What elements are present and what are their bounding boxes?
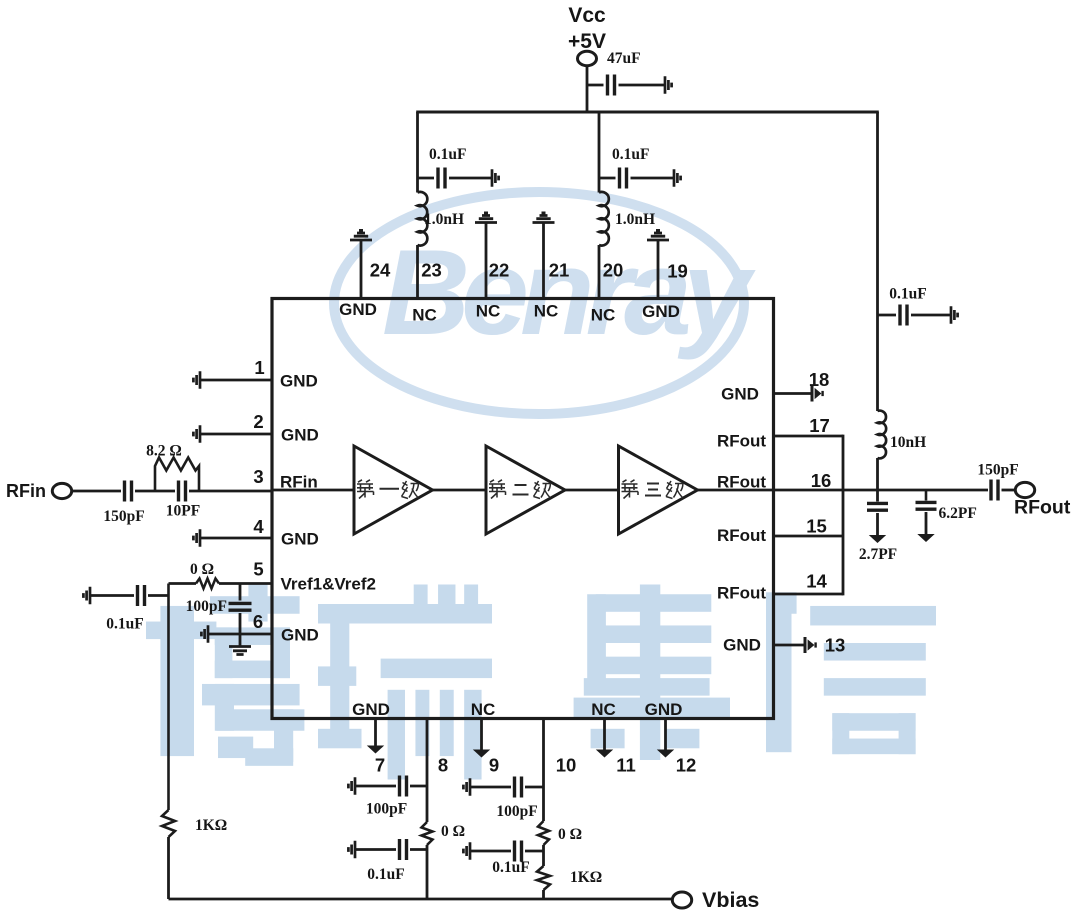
svg-text:GND: GND [352,700,390,719]
wire [239,584,242,601]
amplifier 2 label (stage 2 Chinese) [489,480,551,499]
svg-text:100pF: 100pF [366,801,407,818]
Vbias bus wire [169,898,673,901]
pin 19 wire [657,240,660,299]
wire [169,582,197,585]
ground for pin 12 [657,750,674,758]
pin 9 wire [480,719,483,750]
svg-text:20: 20 [603,260,624,281]
svg-text:24: 24 [370,260,391,281]
signal wire 2-3 [565,489,619,492]
ground arrow pin 18 [812,386,823,402]
pin 15 wire [774,535,844,538]
svg-text:1.0nH: 1.0nH [615,211,655,228]
pin 7 wire [374,719,377,746]
capacitor 150pF (input) [125,481,132,502]
capacitor 10PF [179,481,186,502]
svg-text:17: 17 [809,415,830,436]
capacitor 0.1uF (pin8) [400,839,407,860]
ground for pin 2 [193,425,200,442]
svg-text:NC: NC [412,306,437,325]
power bus wire [416,111,879,114]
svg-text:12: 12 [676,755,697,776]
wire [598,245,601,299]
RFout bus wire [842,435,845,596]
wire [72,490,121,493]
wire [355,848,396,851]
wire [449,177,491,180]
svg-text:0.1uF: 0.1uF [429,146,466,163]
svg-text:18: 18 [809,369,830,390]
svg-text:22: 22 [489,260,510,281]
svg-text:47uF: 47uF [607,50,641,67]
svg-text:0 Ω: 0 Ω [558,826,582,843]
svg-text:RFout: RFout [717,432,766,451]
signal wire in [272,489,354,492]
svg-text:6: 6 [253,611,263,632]
wire [426,845,429,899]
svg-text:Vcc: Vcc [568,4,606,27]
ground for 47uF [665,76,672,93]
capacitor 150pF (output) [991,480,998,501]
svg-text:NC: NC [591,700,616,719]
svg-text:GND: GND [645,700,683,719]
svg-text:GND: GND [281,530,319,549]
svg-text:23: 23 [421,260,442,281]
RFout terminal [1015,482,1034,497]
svg-text:2: 2 [253,411,263,432]
svg-text:1.0nH: 1.0nH [424,211,464,228]
wire [876,458,879,490]
svg-text:19: 19 [667,261,688,282]
pin 11 wire [603,719,606,750]
wire [90,594,134,597]
wire [619,84,665,87]
pin 22 wire [485,223,488,300]
inductor L 1.0nH (pin20) [599,192,609,246]
wire [876,513,879,535]
wire [598,112,601,193]
resistor 1K ohm (pin10) [537,866,550,890]
capacitor 0.1uF (right) [900,305,907,326]
capacitor C 0.1uF (pin23) [438,168,445,189]
svg-text:+5V: +5V [568,30,606,53]
wire [470,786,511,789]
pin 6 wire [208,633,272,636]
wire [586,66,589,114]
ground below 100pF [229,647,251,655]
svg-text:GND: GND [281,626,319,645]
svg-text:10: 10 [556,755,577,776]
svg-text:0.1uF: 0.1uF [492,859,529,876]
wire [925,512,928,534]
RFin terminal [52,483,71,498]
wire [525,786,544,789]
svg-text:11: 11 [616,755,636,776]
capacitor 6.2PF [916,502,937,509]
pin 24 wire [360,240,363,299]
pin 10 wire [542,719,545,822]
svg-text:1KΩ: 1KΩ [570,869,602,886]
wire [416,245,419,299]
pin 2 wire [200,433,272,436]
decorative watermark layer [146,192,936,780]
svg-text:RFin: RFin [6,481,46,501]
wire [418,177,435,180]
amplifier 3 label (stage 3 Chinese) [622,480,684,499]
capacitor 0.1uF (pin10) [515,841,522,862]
capacitor 100pF (pin10) [515,777,522,798]
ground for 100pF (pin8) [348,777,355,794]
amplifier stage 2 [486,446,565,534]
ground for pin 4 [193,529,200,546]
node A vertical wire [167,584,170,811]
amplifier stage 1 [354,446,433,534]
svg-text:GND: GND [280,372,318,391]
ground for 0.1uF (right) [951,306,958,323]
ground for pin20 cap [674,169,681,186]
svg-text:1KΩ: 1KΩ [195,817,227,834]
svg-text:GND: GND [339,300,377,319]
svg-text:RFout: RFout [717,526,766,545]
svg-text:GND: GND [721,385,759,404]
svg-text:0.1uF: 0.1uF [889,286,926,303]
wire [470,850,511,853]
wire [416,112,419,193]
resistor 8.2 ohm [155,458,199,492]
ground for 6.2PF [917,534,934,542]
svg-text:2.7PF: 2.7PF [859,546,897,563]
svg-text:10PF: 10PF [166,503,200,520]
capacitor 2.7PF [867,503,888,510]
pin 12 wire [664,719,667,750]
resistor 1K ohm (left) [162,810,175,837]
pin 18 wire [774,392,813,395]
svg-text:100pF: 100pF [186,598,227,615]
wire [525,850,544,853]
amplifier 1 label (stage 1 Chinese) [357,480,419,499]
ground for pin 7 [367,746,384,754]
wire [410,785,427,788]
svg-text:9: 9 [489,755,499,776]
pin 8 wire [426,719,429,823]
pin 1 wire [200,379,272,382]
ground for pin 1 [193,371,200,388]
capacitor 100pF (pin5) [229,603,252,610]
pin 4 wire [200,537,272,540]
ground arrow pin 13 [805,637,816,653]
wire to 6.2PF [925,490,928,501]
inductor 10nH [878,411,887,459]
op-amp IC body U1 [272,299,774,719]
Vcc terminal [578,51,597,65]
signal wire 1-2 [433,489,487,492]
svg-text:8: 8 [438,755,448,776]
svg-text:15: 15 [806,516,827,537]
svg-text:10nH: 10nH [890,434,926,451]
pin 13 wire [774,644,806,647]
svg-text:NC: NC [471,700,496,719]
svg-text:5: 5 [253,559,263,580]
svg-text:14: 14 [806,571,827,592]
pin 14 wire [774,593,844,596]
svg-text:0.1uF: 0.1uF [367,866,404,883]
svg-text:0.1uF: 0.1uF [612,146,649,163]
svg-text:16: 16 [811,470,832,491]
wire [542,890,545,899]
svg-text:150pF: 150pF [977,462,1018,479]
wire [599,177,616,180]
ground for 0.1uF (pin8) [348,841,355,858]
pin 21 wire [542,223,545,300]
svg-text:4: 4 [253,516,264,537]
svg-text:7: 7 [375,755,385,776]
wire [135,490,175,493]
svg-text:100pF: 100pF [496,803,537,820]
svg-text:21: 21 [549,260,570,281]
right supply wire [876,112,879,411]
pin 17 wire [774,435,844,438]
capacitor 0.1uF (left) [138,585,145,606]
wire [876,490,879,502]
wire [631,177,674,180]
wire [167,837,170,899]
svg-text:150pF: 150pF [103,508,144,525]
svg-text:Vbias: Vbias [702,888,759,912]
node RFout junction 2.7PF [0,0,1,1]
svg-text:13: 13 [825,635,846,656]
wire [239,613,242,646]
ground above pin 19 [647,230,669,240]
svg-text:8.2 Ω: 8.2 Ω [146,443,182,460]
svg-text:1: 1 [254,357,264,378]
svg-text:RFout: RFout [1014,497,1071,519]
resistor 0 ohm (pin10) [538,821,549,845]
capacitor 47uF [608,75,615,96]
ground for pin 11 [596,750,613,758]
svg-text:Benray: Benray [382,224,756,360]
svg-text:RFout: RFout [717,584,766,603]
wire [355,785,396,788]
capacitor C 0.1uF (pin20) [620,168,627,189]
ground for 0.1uF (left) [83,587,90,604]
ground above pin 22 [475,213,497,223]
wire [219,582,272,585]
svg-text:NC: NC [591,306,616,325]
resistor 0 ohm (pin8) [422,822,433,845]
Vbias terminal [672,892,691,908]
svg-text:0 Ω: 0 Ω [441,823,465,840]
svg-text:3: 3 [253,466,263,487]
svg-text:GND: GND [642,302,680,321]
ground for pin23 cap [492,169,499,186]
wire [410,848,427,851]
ground for 0.1uF (pin10) [463,842,470,859]
svg-text:NC: NC [534,302,559,321]
svg-text:6.2PF: 6.2PF [939,505,977,522]
ground above pin 21 [533,213,555,223]
ground above pin 24 [350,230,372,240]
svg-text:0 Ω: 0 Ω [190,561,214,578]
wire [148,594,169,597]
svg-text:NC: NC [476,302,501,321]
signal wire out [698,489,989,492]
amplifier stage 3 [619,446,698,534]
wire [542,845,545,866]
svg-text:GND: GND [723,636,761,655]
ground for 2.7PF [869,535,886,543]
wire [1002,489,1016,492]
wire [587,84,604,87]
ground for pin 9 [473,750,490,758]
svg-text:Vref1&Vref2: Vref1&Vref2 [281,575,376,594]
capacitor 100pF (pin8) [400,776,407,797]
wire [878,314,897,317]
svg-text:0.1uF: 0.1uF [106,616,143,633]
wire [911,314,950,317]
ground for 100pF (pin10) [463,778,470,795]
svg-text:GND: GND [281,426,319,445]
resistor 0 ohm (pin5) [196,579,219,589]
ground for pin 6 [201,625,208,642]
inductor L 1.0nH (pin23) [418,192,428,246]
wire [189,490,272,493]
